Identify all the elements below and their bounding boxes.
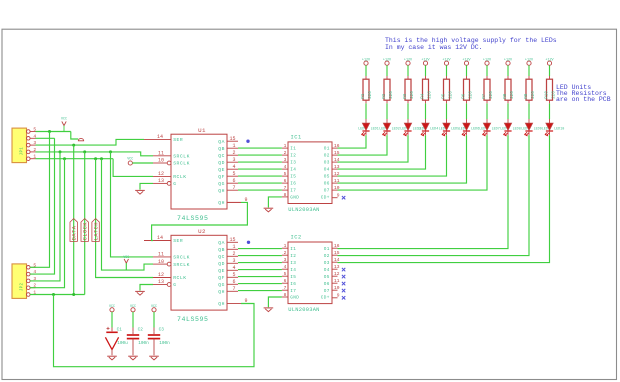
svg-text:O6: O6: [324, 182, 330, 187]
svg-text:I2: I2: [290, 254, 296, 259]
svg-text:R8: R8: [504, 93, 508, 99]
svg-text:QD: QD: [218, 261, 225, 267]
svg-text:8: 8: [284, 192, 287, 198]
svg-text:+12V: +12V: [525, 58, 534, 62]
svg-text:LATCH: LATCH: [93, 222, 99, 240]
svg-text:6: 6: [232, 178, 235, 184]
svg-text:QG: QG: [218, 181, 225, 187]
svg-text:R7: R7: [483, 93, 487, 99]
svg-text:11: 11: [334, 278, 340, 284]
svg-text:74LS595: 74LS595: [177, 316, 209, 323]
svg-text:8: 8: [284, 292, 287, 298]
svg-text:QE: QE: [218, 167, 225, 173]
svg-text:QE: QE: [218, 268, 225, 274]
svg-text:This is the high voltage suppl: This is the high voltage supply for the …: [385, 37, 557, 44]
svg-text:220: 220: [449, 91, 453, 99]
svg-text:I3: I3: [290, 161, 296, 166]
svg-text:1: 1: [232, 143, 235, 149]
svg-text:+12V: +12V: [362, 58, 371, 62]
svg-text:C3: C3: [159, 328, 165, 333]
svg-text:LED2: LED2: [392, 127, 400, 131]
svg-text:I4: I4: [290, 268, 296, 273]
svg-text:LED: LED: [479, 127, 485, 131]
svg-text:13: 13: [158, 279, 164, 285]
svg-text:10: 10: [334, 185, 340, 191]
svg-text:220: 220: [532, 91, 536, 99]
svg-text:100n: 100n: [138, 341, 149, 346]
svg-text:LED: LED: [379, 127, 385, 131]
svg-text:220: 220: [490, 91, 494, 99]
svg-text:100u: 100u: [117, 341, 128, 346]
svg-text:LED: LED: [439, 127, 445, 131]
svg-text:R6: R6: [463, 93, 467, 99]
svg-text:+12V: +12V: [483, 58, 492, 62]
svg-text:LED: LED: [358, 127, 364, 131]
svg-text:LED4: LED4: [430, 127, 438, 131]
svg-text:LED: LED: [542, 127, 548, 131]
svg-text:2: 2: [232, 251, 235, 257]
svg-text:100n: 100n: [159, 341, 170, 346]
svg-text:RCLK: RCLK: [173, 275, 186, 281]
svg-text:4: 4: [284, 264, 287, 270]
svg-text:U1: U1: [198, 127, 206, 134]
svg-text:5: 5: [284, 171, 287, 177]
svg-text:R9: R9: [525, 93, 529, 99]
svg-text:I5: I5: [290, 275, 296, 280]
svg-text:13: 13: [158, 178, 164, 184]
svg-text:O2: O2: [324, 254, 330, 259]
svg-text:QC: QC: [218, 254, 225, 260]
svg-text:7: 7: [284, 185, 287, 191]
svg-text:6: 6: [232, 279, 235, 285]
svg-text:220: 220: [428, 91, 432, 99]
svg-text:+12V: +12V: [462, 58, 471, 62]
svg-text:IC2: IC2: [291, 235, 302, 241]
svg-text:5: 5: [284, 271, 287, 277]
svg-text:LED6: LED6: [471, 127, 479, 131]
svg-text:LED10: LED10: [554, 127, 564, 131]
svg-text:QG: QG: [218, 282, 225, 288]
svg-text:4: 4: [232, 164, 235, 170]
svg-text:QD: QD: [218, 160, 225, 166]
svg-text:R10: R10: [546, 91, 550, 99]
svg-text:220: 220: [411, 91, 415, 99]
svg-text:U2: U2: [198, 228, 206, 235]
svg-text:LED1: LED1: [371, 127, 379, 131]
svg-text:SRCLK: SRCLK: [173, 161, 190, 167]
svg-text:IC1: IC1: [291, 135, 302, 141]
svg-text:16: 16: [334, 143, 340, 149]
svg-text:O4: O4: [324, 268, 330, 273]
svg-text:4: 4: [232, 265, 235, 271]
svg-text:SRCLK: SRCLK: [173, 154, 190, 160]
svg-text:+12V: +12V: [383, 58, 392, 62]
svg-text:15: 15: [334, 250, 340, 256]
svg-text:12: 12: [334, 171, 340, 177]
svg-text:CLOCK: CLOCK: [83, 222, 89, 241]
svg-text:QA: QA: [218, 240, 225, 246]
svg-text:LED: LED: [459, 127, 465, 131]
svg-text:11: 11: [334, 178, 340, 184]
svg-text:3: 3: [284, 157, 287, 163]
svg-text:11: 11: [158, 252, 164, 258]
svg-text:VCC: VCC: [109, 305, 115, 309]
svg-text:3: 3: [232, 258, 235, 264]
svg-text:O3: O3: [324, 161, 330, 166]
svg-text:1: 1: [284, 143, 287, 149]
svg-text:I5: I5: [290, 175, 296, 180]
svg-text:14: 14: [334, 257, 340, 263]
svg-text:QH: QH: [218, 289, 225, 295]
svg-text:I2: I2: [290, 154, 296, 159]
svg-text:C1: C1: [117, 328, 123, 333]
svg-text:6: 6: [284, 178, 287, 184]
svg-text:5: 5: [232, 272, 235, 278]
svg-text:+12V: +12V: [504, 58, 513, 62]
svg-text:QC: QC: [218, 153, 225, 159]
svg-text:10: 10: [334, 285, 340, 291]
svg-text:SER: SER: [173, 238, 183, 244]
svg-text:LED: LED: [521, 127, 527, 131]
svg-text:220: 220: [369, 91, 373, 99]
svg-text:SRCLK: SRCLK: [173, 255, 190, 261]
svg-text:220: 220: [511, 91, 515, 99]
svg-text:In my case it was 12V DC.: In my case it was 12V DC.: [385, 44, 483, 51]
svg-text:R5: R5: [443, 93, 447, 99]
svg-text:I3: I3: [290, 261, 296, 266]
svg-text:9: 9: [337, 293, 340, 299]
svg-text:7: 7: [232, 185, 235, 191]
svg-text:+12V: +12V: [545, 58, 554, 62]
svg-text:R2: R2: [383, 93, 387, 99]
svg-text:9: 9: [337, 193, 340, 199]
svg-text:LED9: LED9: [534, 127, 542, 131]
svg-text:I4: I4: [290, 168, 296, 173]
svg-text:15: 15: [229, 237, 235, 243]
svg-text:14: 14: [334, 157, 340, 163]
svg-text:LED7: LED7: [492, 127, 500, 131]
svg-text:O1: O1: [324, 147, 330, 152]
svg-text:C2: C2: [138, 328, 144, 333]
svg-text:I6: I6: [290, 182, 296, 187]
svg-text:I7: I7: [290, 289, 296, 294]
svg-text:O6: O6: [324, 282, 330, 287]
svg-text:+12V: +12V: [404, 58, 413, 62]
svg-text:220: 220: [469, 91, 473, 99]
svg-text:1: 1: [284, 243, 287, 249]
svg-text:+12V: +12V: [442, 58, 451, 62]
svg-text:LED: LED: [500, 127, 506, 131]
svg-text:VCC: VCC: [130, 305, 136, 309]
svg-text:VCC: VCC: [151, 305, 157, 309]
svg-text:QH: QH: [218, 301, 225, 307]
svg-text:GND: GND: [290, 196, 299, 201]
svg-text:4: 4: [284, 164, 287, 170]
svg-text:2: 2: [232, 150, 235, 156]
svg-text:G: G: [173, 181, 176, 187]
svg-text:ULN2003AN: ULN2003AN: [288, 307, 319, 313]
svg-text:O3: O3: [324, 261, 330, 266]
svg-text:LED: LED: [400, 127, 406, 131]
svg-text:O7: O7: [324, 289, 330, 294]
svg-text:+12V: +12V: [421, 58, 430, 62]
svg-text:7: 7: [232, 286, 235, 292]
svg-text:DATA: DATA: [72, 225, 78, 240]
svg-text:13: 13: [334, 164, 340, 170]
svg-text:16: 16: [334, 243, 340, 249]
svg-text:GND: GND: [290, 296, 299, 301]
svg-text:15: 15: [334, 150, 340, 156]
svg-text:5: 5: [232, 171, 235, 177]
svg-text:O5: O5: [324, 275, 330, 280]
svg-text:10: 10: [158, 259, 164, 265]
svg-text:12: 12: [158, 171, 164, 177]
svg-text:SRCLK: SRCLK: [173, 262, 190, 268]
svg-text:QB: QB: [218, 247, 225, 253]
svg-text:10: 10: [158, 158, 164, 164]
svg-text:O4: O4: [324, 168, 330, 173]
svg-text:I7: I7: [290, 189, 296, 194]
svg-text:G: G: [173, 282, 176, 288]
svg-text:220: 220: [390, 91, 394, 99]
svg-text:LED: LED: [418, 127, 424, 131]
svg-text:QH: QH: [218, 188, 225, 194]
svg-text:RCLK: RCLK: [173, 174, 186, 180]
svg-text:CD+: CD+: [321, 296, 330, 301]
svg-text:14: 14: [157, 134, 163, 140]
svg-text:SER: SER: [173, 137, 183, 143]
svg-text:QF: QF: [218, 174, 225, 180]
svg-text:3: 3: [232, 157, 235, 163]
svg-text:11: 11: [158, 151, 164, 157]
svg-text:QA: QA: [218, 139, 225, 145]
svg-text:74LS595: 74LS595: [177, 215, 209, 222]
svg-text:15: 15: [229, 136, 235, 142]
svg-text:12: 12: [158, 272, 164, 278]
svg-text:1: 1: [232, 244, 235, 250]
svg-text:QB: QB: [218, 146, 225, 152]
svg-text:QH: QH: [218, 200, 225, 206]
svg-text:7: 7: [284, 285, 287, 291]
svg-text:are on the PCB: are on the PCB: [556, 96, 611, 103]
svg-text:O2: O2: [324, 154, 330, 159]
svg-text:12: 12: [334, 271, 340, 277]
svg-text:R3: R3: [404, 93, 408, 99]
svg-text:3: 3: [284, 257, 287, 263]
svg-text:I1: I1: [290, 147, 296, 152]
svg-text:I6: I6: [290, 282, 296, 287]
svg-text:JP2: JP2: [20, 283, 24, 292]
svg-text:13: 13: [334, 264, 340, 270]
svg-text:2: 2: [284, 250, 287, 256]
svg-text:O7: O7: [324, 189, 330, 194]
svg-text:O5: O5: [324, 175, 330, 180]
svg-text:I1: I1: [290, 247, 296, 252]
svg-text:LED8: LED8: [513, 127, 521, 131]
svg-text:ULN2003AN: ULN2003AN: [288, 207, 319, 213]
svg-text:2: 2: [284, 150, 287, 156]
svg-text:R1: R1: [362, 93, 366, 99]
svg-text:VCC: VCC: [61, 118, 67, 122]
svg-text:6: 6: [284, 278, 287, 284]
svg-text:QF: QF: [218, 275, 225, 281]
svg-text:O1: O1: [324, 247, 330, 252]
svg-text:R4: R4: [422, 93, 426, 99]
svg-text:CD+: CD+: [321, 196, 330, 201]
svg-text:JP1: JP1: [20, 147, 24, 156]
